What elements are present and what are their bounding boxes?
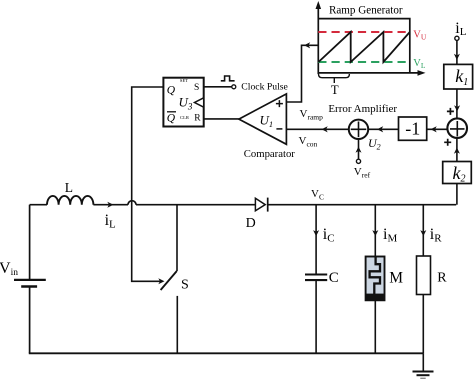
- capacitor branch lower wire: [315, 281, 317, 353]
- gain block k1: [444, 64, 473, 89]
- svg-text:CLR: CLR: [180, 115, 190, 120]
- clock pulse waveform symbol: [221, 76, 235, 81]
- comparator + input mark: [276, 100, 283, 107]
- i_L sense input terminal: [455, 36, 459, 40]
- wire right summer to -1 block: [427, 128, 448, 130]
- clock pulse open terminal: [232, 85, 236, 89]
- arrowhead i_C: [313, 230, 319, 236]
- wire U2 output to comparator - input: [286, 128, 348, 130]
- switch lower wire: [176, 296, 178, 353]
- svg-text:D: D: [246, 216, 256, 231]
- arrowhead on V_ref wire: [356, 147, 362, 153]
- right summing junction: [447, 118, 467, 138]
- svg-text:S: S: [181, 277, 189, 292]
- plus sign lower at right summer: [444, 139, 451, 146]
- arrowhead on summer to -1 wire: [431, 126, 437, 132]
- svg-text:C: C: [329, 270, 339, 286]
- svg-text:Comparator: Comparator: [244, 148, 295, 160]
- resistor R body: [417, 256, 431, 295]
- wire left branch top: [29, 205, 31, 279]
- svg-text:M: M: [389, 270, 403, 287]
- wire V_C rail up to k2: [456, 184, 458, 205]
- arrowhead on ramp output wire: [304, 42, 310, 48]
- wire k1 to right summer: [456, 89, 458, 118]
- wire -1 block to U2: [368, 128, 398, 130]
- wire flip-flop S output to clock pulse terminal: [204, 86, 232, 88]
- wire i_L terminal to k1: [456, 41, 458, 65]
- svg-text:R: R: [437, 271, 447, 286]
- arrowhead on -1 to U2 wire: [377, 126, 383, 132]
- switch S blade: [161, 271, 177, 290]
- memristor M body: [366, 257, 385, 301]
- arrowhead on U2 output wire: [322, 126, 328, 132]
- wire left branch bottom: [29, 288, 31, 354]
- svg-text:Q: Q: [167, 112, 176, 124]
- memristor branch lower wire: [374, 300, 376, 353]
- ramp generator x-axis with right arrow: [318, 70, 425, 76]
- inductor L: [47, 196, 93, 205]
- wire k2 to right summer: [456, 138, 458, 162]
- wire ramp output to comparator + input: [286, 45, 318, 102]
- plus sign upper at right summer: [447, 108, 454, 115]
- V_ref input terminal: [356, 159, 360, 163]
- summing junction U2: [349, 120, 368, 139]
- svg-text:Ramp Generator: Ramp Generator: [329, 5, 403, 17]
- arrowhead k2 to summer: [454, 148, 460, 154]
- flip-flop pin label Qbar: [167, 112, 176, 125]
- arrowhead into k1: [454, 54, 460, 60]
- battery V_in: [14, 280, 46, 287]
- V_L lower threshold green dashed line: [318, 61, 410, 63]
- capacitor branch upper wire: [315, 205, 317, 274]
- gain block -1: [399, 117, 427, 140]
- wire hop over drive line: [128, 201, 136, 205]
- svg-text:Q: Q: [167, 85, 176, 97]
- capacitor C plates: [305, 275, 327, 281]
- main top rail diode to k2 corner: [268, 204, 457, 206]
- period bracket under ramp: [319, 74, 350, 83]
- V_U upper threshold red dashed line: [318, 31, 410, 33]
- arrowhead i_L on rail: [107, 202, 113, 208]
- svg-text:S: S: [194, 83, 199, 93]
- svg-text:T: T: [331, 83, 339, 97]
- main bottom rail: [29, 352, 424, 354]
- wire V_ref to U2: [358, 139, 360, 159]
- main top rail left segment with inductor: [30, 204, 128, 206]
- switch upper wire: [176, 205, 178, 271]
- svg-text:Error Amplifier: Error Amplifier: [328, 103, 397, 115]
- arrowhead i_R: [420, 230, 426, 236]
- svg-text:R: R: [194, 114, 201, 124]
- resistor branch lower wire: [422, 295, 424, 354]
- flip-flop U3 box: [163, 78, 203, 127]
- wire comparator output to flip-flop R: [204, 118, 239, 120]
- ramp generator axis (y-axis with up arrow): [316, 1, 322, 74]
- ramp generator box: [318, 19, 410, 73]
- arrowhead i_M: [372, 230, 378, 236]
- svg-text:L: L: [65, 180, 73, 195]
- diode D: [255, 198, 267, 212]
- main top rail to diode: [136, 204, 255, 206]
- ground symbol: [413, 353, 434, 378]
- arrowhead into right summer: [454, 105, 460, 111]
- resistor branch upper wire: [422, 205, 424, 256]
- svg-text:SET: SET: [180, 78, 188, 83]
- gain block k2: [443, 162, 472, 185]
- comparator - input mark: [276, 128, 282, 130]
- arrowhead of switch drive: [158, 278, 164, 284]
- comparator U1 triangle: [239, 94, 287, 144]
- svg-text:Clock Pulse: Clock Pulse: [241, 82, 288, 93]
- sawtooth ramp waveform: [319, 32, 410, 62]
- wire flip-flop Q output to switch drive: [132, 87, 164, 281]
- svg-text:-1: -1: [405, 119, 420, 139]
- flip-flop clock notch: [195, 98, 204, 107]
- memristor branch upper wire: [374, 205, 376, 257]
